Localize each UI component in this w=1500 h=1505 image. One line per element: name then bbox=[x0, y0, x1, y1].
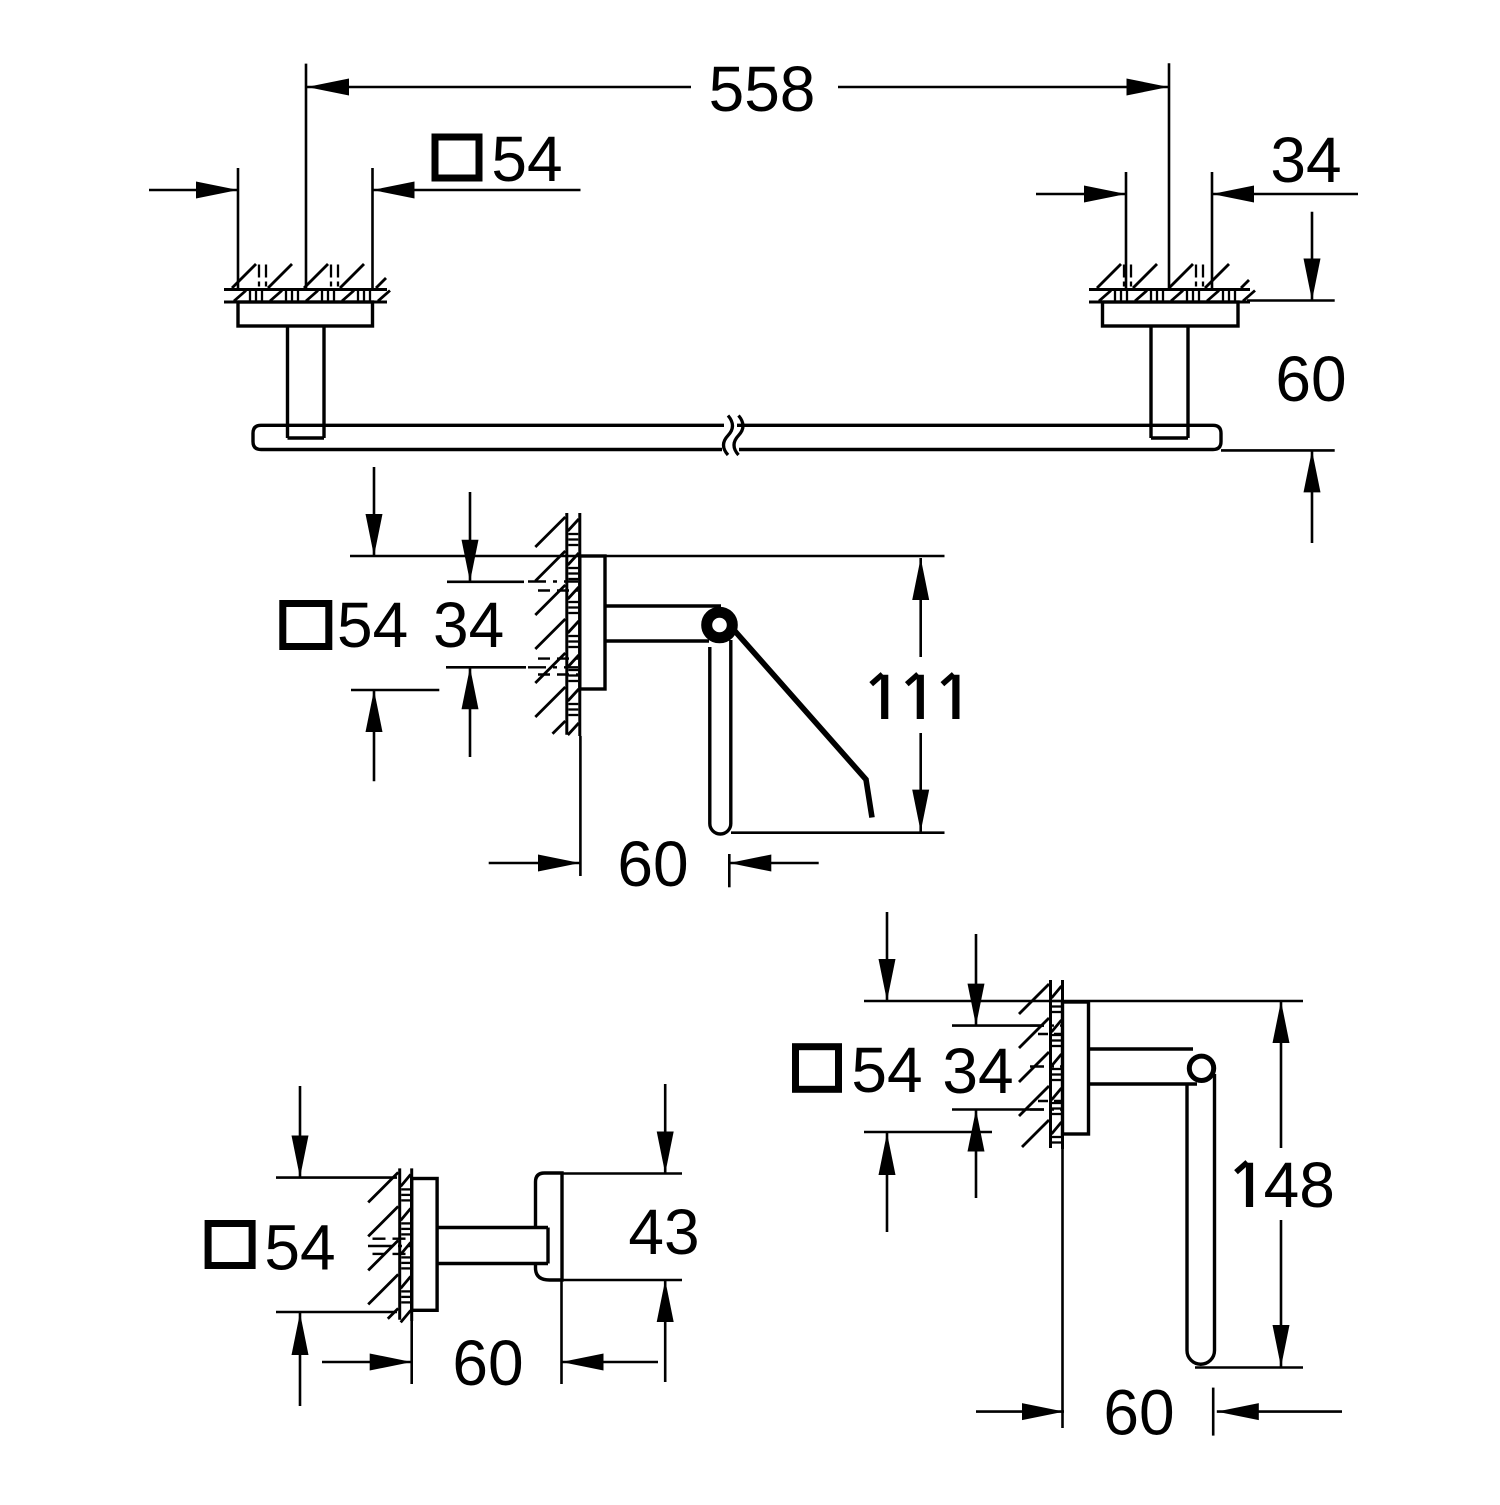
svg-text:60: 60 bbox=[617, 828, 688, 900]
spare holder plate bbox=[1063, 1002, 1089, 1134]
left post plate bbox=[238, 302, 373, 326]
right post plate bbox=[1103, 302, 1239, 326]
towel bar bbox=[253, 425, 1221, 449]
spare holder arm bbox=[1089, 1049, 1198, 1084]
svg-text:34: 34 bbox=[433, 589, 504, 661]
pivot ring (middle) bbox=[707, 612, 733, 638]
hidden fixing lines (spare holder) bbox=[1030, 1026, 1061, 1110]
svg-text:60: 60 bbox=[1275, 343, 1346, 415]
hook plate bbox=[412, 1179, 437, 1311]
right post stem bbox=[1151, 326, 1188, 438]
dimension 34 (top) bbox=[1036, 124, 1358, 290]
dimension 43 bbox=[562, 1084, 700, 1382]
top reference line (spare holder) bbox=[864, 1000, 1303, 1003]
svg-text:54: 54 bbox=[851, 1034, 922, 1106]
wall surface (middle) bbox=[535, 513, 580, 736]
svg-text:60: 60 bbox=[1103, 1377, 1174, 1449]
wall surface (spare holder) bbox=[1019, 980, 1063, 1149]
svg-text:54: 54 bbox=[491, 123, 562, 195]
dimension 60 (top right) bbox=[1221, 212, 1347, 543]
bar break mark bbox=[724, 416, 744, 456]
dimension 60 (hook) bbox=[322, 1280, 658, 1399]
dimension 34 (spare holder) bbox=[942, 934, 1044, 1198]
dimension 111 bbox=[871, 558, 956, 832]
bottom reference line (spare holder) bbox=[1195, 1366, 1303, 1369]
dimension square 54 (spare holder) bbox=[796, 912, 993, 1232]
svg-text:48: 48 bbox=[1264, 1149, 1335, 1221]
dimension 60 (spare holder) bbox=[976, 1149, 1342, 1449]
top reference line (middle) bbox=[350, 555, 945, 558]
hidden fixing lines (middle) bbox=[528, 582, 578, 675]
dimension square 54 (middle) bbox=[283, 467, 440, 781]
dimension square 54 (hook) bbox=[208, 1086, 397, 1406]
roll holder arm bbox=[605, 606, 721, 641]
hook stem bbox=[437, 1228, 548, 1264]
wall surface (hook) bbox=[368, 1168, 412, 1322]
svg-text:43: 43 bbox=[628, 1196, 699, 1268]
roll holder rod bbox=[710, 640, 731, 834]
dimension 60 (middle) bbox=[489, 736, 819, 900]
spare holder rod bbox=[1187, 1074, 1215, 1364]
centre line left post bbox=[305, 64, 308, 290]
spring flap bbox=[734, 630, 873, 818]
svg-text:558: 558 bbox=[709, 53, 816, 125]
hook head bbox=[536, 1173, 563, 1280]
svg-text:54: 54 bbox=[337, 589, 408, 661]
dimension 148 bbox=[1236, 1001, 1335, 1367]
dimension 558 bbox=[307, 53, 1169, 125]
svg-text:60: 60 bbox=[452, 1327, 523, 1399]
dimension square 54 (top) bbox=[149, 123, 581, 290]
svg-text:34: 34 bbox=[942, 1035, 1013, 1107]
left post stem bbox=[288, 326, 325, 438]
bottom reference line (middle) bbox=[731, 831, 945, 834]
wall surface (top right) bbox=[1089, 264, 1255, 302]
centre line right post bbox=[1168, 63, 1171, 289]
svg-text:34: 34 bbox=[1270, 124, 1341, 196]
roll holder plate bbox=[580, 556, 605, 689]
svg-text:54: 54 bbox=[264, 1212, 335, 1284]
hidden fixing lines (hook) bbox=[368, 1239, 412, 1254]
wall surface (top left) bbox=[224, 264, 390, 302]
dimension 34 (middle) bbox=[433, 492, 526, 757]
pivot circle (spare holder) bbox=[1189, 1056, 1213, 1080]
